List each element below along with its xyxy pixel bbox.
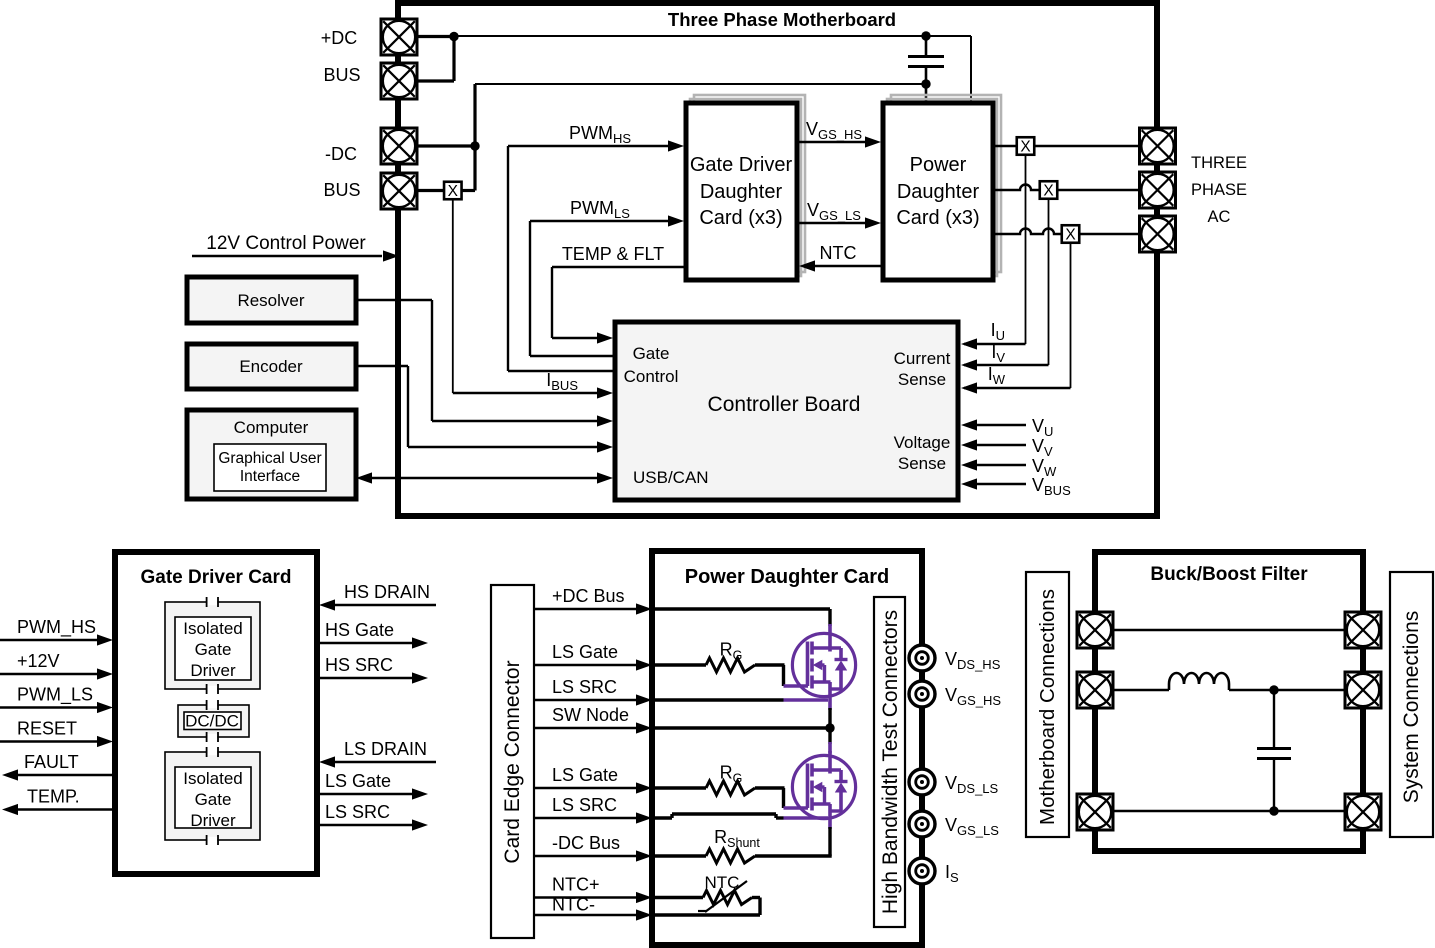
wire TEMP out: [16, 808, 113, 811]
wire SW Node from card edge connector: [534, 727, 638, 729]
svg-text:Control: Control: [624, 367, 679, 386]
terminal -DC BUS feedthrough 1: [381, 128, 417, 164]
label IS: [945, 862, 959, 885]
block Gate Driver Card: [115, 552, 317, 874]
svg-text:VDS_HS: VDS_HS: [945, 649, 1001, 672]
terminal phase V: [1140, 172, 1176, 208]
arrow VW into controller: [961, 459, 977, 470]
block High Bandwidth Test Connectors: [874, 597, 905, 927]
wire IV sense: [964, 199, 1049, 365]
label VW: [1032, 456, 1057, 479]
label VGS_LS: [945, 815, 999, 838]
block Resolver: [187, 277, 356, 323]
label SW Node pin: [552, 705, 629, 725]
svg-text:PHASE: PHASE: [1191, 181, 1247, 199]
svg-text:VGS_LS: VGS_LS: [807, 200, 861, 223]
label THREE PHASE AC: [1191, 154, 1247, 226]
arrow LS SRC into power card: [636, 812, 652, 823]
svg-text:High Bandwidth Test Connectors: High Bandwidth Test Connectors: [879, 610, 902, 914]
wire TEMP & FLT: [552, 267, 686, 338]
wire IBUS sense to controller: [453, 199, 598, 393]
arrow LS Gate out: [412, 788, 428, 799]
block Buck/Boost Filter: [1095, 552, 1363, 851]
arrow IBUS into controller: [597, 387, 613, 398]
wire +DC bus rail: [454, 36, 971, 101]
label RG low side: [720, 763, 743, 786]
svg-text:USB/CAN: USB/CAN: [633, 468, 709, 487]
terminal filter in mid: [1077, 672, 1113, 708]
terminal filter out bottom: [1345, 794, 1381, 830]
wire HS DRAIN: [332, 604, 436, 607]
label VGS_HS: [945, 685, 1001, 708]
label Gate Control: [624, 344, 679, 386]
svg-text:TEMP & FLT: TEMP & FLT: [562, 244, 664, 264]
svg-text:Motherboard Connections: Motherboard Connections: [1036, 589, 1059, 825]
wire source lead Q2: [828, 804, 832, 856]
wire USB/CAN computer link: [370, 477, 600, 479]
svg-text:Card (x3): Card (x3): [699, 207, 782, 229]
svg-text:AC: AC: [1208, 208, 1231, 226]
arrow VV into controller: [961, 439, 977, 450]
shadow Gate Driver Daughter Card: [690, 95, 805, 276]
wire LS Gate out: [319, 793, 412, 796]
isolation barrier marks LS: [207, 747, 218, 845]
arrow NTC- into power card: [636, 909, 652, 920]
test connector IS: [909, 858, 935, 884]
label IW: [988, 364, 1006, 387]
svg-text:LS SRC: LS SRC: [325, 802, 390, 822]
wire NTC- from card edge connector: [534, 914, 638, 916]
arrow 12V into motherboard: [383, 250, 399, 261]
terminal filter out top: [1345, 612, 1381, 648]
block DC/DC inner: [184, 712, 241, 731]
svg-text:IW: IW: [988, 364, 1006, 387]
arrow SW Node into power card: [636, 722, 652, 733]
wire LS SRC from card edge connector: [534, 817, 638, 819]
wire +DC Bus from card edge connector: [534, 608, 638, 610]
wire -DC Bus from card edge connector: [534, 855, 638, 857]
wire -DC terminal 4 to sensor: [417, 189, 444, 192]
wire VGS_LS: [797, 222, 868, 224]
wire drain lead Q2 (purple): [828, 751, 832, 774]
svg-text:-DC: -DC: [325, 144, 357, 164]
wire phase W: [993, 229, 1139, 235]
svg-text:X: X: [1065, 227, 1076, 244]
isolation barrier marks HS: [207, 597, 218, 694]
title Three Phase Motherboard: [668, 9, 896, 30]
node SW junction: [825, 723, 834, 732]
thermistor NTC: [655, 881, 760, 912]
wire 12V control power: [192, 255, 382, 258]
terminal +DC BUS feedthrough 2: [381, 63, 417, 99]
arrow VGS_LS into power card: [865, 217, 881, 228]
wire Encoder to controller: [356, 366, 598, 447]
label VU: [1032, 416, 1053, 439]
block System Connections: [1390, 572, 1433, 837]
label +DC BUS: [321, 28, 361, 85]
test connector VGS_LS: [909, 811, 935, 837]
current sensor X phase W: [1062, 225, 1080, 243]
wire +DC terminal 1 to junction: [417, 35, 454, 38]
svg-text:Sense: Sense: [898, 454, 946, 473]
label HS Gate: [325, 620, 394, 640]
title Gate Driver Card: [140, 567, 291, 588]
label USB/CAN: [633, 468, 709, 487]
wire HS SRC: [319, 677, 412, 680]
wire filter top rail: [1113, 629, 1345, 631]
svg-text:Card Edge Connector: Card Edge Connector: [501, 660, 524, 863]
label VDS_HS: [945, 649, 1001, 672]
label +12V: [17, 651, 60, 671]
svg-text:X: X: [1043, 183, 1054, 200]
svg-text:Three Phase Motherboard: Three Phase Motherboard: [668, 9, 896, 30]
test connector VDS_LS: [909, 769, 935, 795]
svg-text:HS DRAIN: HS DRAIN: [344, 582, 430, 602]
svg-text:Card (x3): Card (x3): [896, 207, 979, 229]
arrow IW into controller: [961, 382, 977, 393]
terminal phase U: [1140, 128, 1176, 164]
title Buck/Boost Filter: [1150, 564, 1308, 585]
label IU: [991, 320, 1005, 343]
block Power Daughter Card detail: [652, 551, 922, 945]
wire +DC bus internal: [655, 609, 830, 626]
svg-text:-DC Bus: -DC Bus: [552, 833, 620, 853]
arrow LS SRC into power card: [636, 694, 652, 705]
svg-text:PWMLS: PWMLS: [570, 198, 630, 221]
svg-text:BUS: BUS: [323, 65, 360, 85]
label VGS_LS: [807, 200, 861, 223]
terminal +DC BUS feedthrough 1: [381, 19, 417, 55]
block isolated gate driver HS outer: [165, 602, 260, 689]
wire -DC junction down to sensor: [462, 146, 475, 191]
svg-text:X: X: [1020, 139, 1031, 156]
svg-text:NTC: NTC: [820, 243, 857, 263]
svg-text:NTC+: NTC+: [552, 875, 600, 895]
label +DC Bus pin: [552, 586, 625, 606]
svg-text:VGS_HS: VGS_HS: [806, 119, 862, 142]
arrow PWM_LS: [97, 702, 113, 713]
wire -DC bus rail: [475, 84, 926, 146]
svg-text:IBUS: IBUS: [546, 370, 578, 393]
svg-text:LS Gate: LS Gate: [552, 642, 618, 662]
block Encoder: [187, 344, 356, 389]
arrow Resolver into controller: [597, 415, 613, 426]
svg-text:+12V: +12V: [17, 651, 60, 671]
wire PWM_LS into gate driver card: [0, 706, 100, 709]
isolation barrier marks DC/DC: [207, 700, 218, 742]
label FAULT: [24, 752, 79, 772]
svg-text:Gate: Gate: [633, 344, 670, 363]
block Controller Board: [615, 322, 958, 500]
arrow VU into controller: [961, 419, 977, 430]
svg-text:VDS_LS: VDS_LS: [945, 773, 999, 796]
svg-text:Voltage: Voltage: [894, 433, 951, 452]
label LS Gate pin: [552, 765, 618, 785]
label RG high side: [720, 640, 743, 663]
terminal filter out mid: [1345, 672, 1381, 708]
arrow HS DRAIN: [319, 599, 335, 610]
current sensor X phase V: [1040, 181, 1058, 199]
label HS SRC: [325, 655, 393, 675]
capacitor filter: [1257, 690, 1291, 811]
wire gate lead Q2: [784, 788, 809, 808]
svg-text:Daughter: Daughter: [700, 181, 783, 203]
label LS DRAIN: [344, 739, 427, 759]
wire +DC terminal 2 riser: [417, 37, 454, 82]
wire VGS_HS: [797, 141, 868, 143]
label Controller Board: [708, 393, 861, 416]
svg-text:Encoder: Encoder: [239, 357, 303, 376]
label PWM_HS: [569, 123, 631, 146]
label VDS_LS: [945, 773, 999, 796]
svg-text:PWM_LS: PWM_LS: [17, 685, 93, 706]
svg-text:Power Daughter Card: Power Daughter Card: [685, 566, 889, 588]
terminal filter in bottom: [1077, 794, 1113, 830]
block isolated gate driver HS inner: [175, 617, 251, 680]
label HS DRAIN: [344, 582, 430, 602]
label Current Sense: [894, 349, 951, 389]
svg-text:LS Gate: LS Gate: [552, 765, 618, 785]
arrow Encoder into controller: [597, 441, 613, 452]
wire cap to Power Daughter Card top: [925, 84, 928, 101]
node filter cap top: [1269, 685, 1278, 694]
arrow PWM_LS into gate driver card: [668, 215, 684, 226]
arrow PWM_HS into gate driver card: [668, 140, 684, 151]
svg-text:BUS: BUS: [323, 180, 360, 200]
svg-text:Driver: Driver: [190, 661, 236, 680]
svg-text:Current: Current: [894, 349, 951, 368]
arrow +DC Bus into power card: [636, 603, 652, 614]
wire drain lead Q1 (purple): [828, 624, 832, 652]
arrow FAULT: [2, 769, 18, 780]
svg-text:Power: Power: [910, 154, 967, 176]
svg-text:+DC: +DC: [321, 28, 358, 48]
svg-text:DC/DC: DC/DC: [185, 712, 239, 731]
arrow IU into controller: [961, 338, 977, 349]
wire LS SRC out: [319, 824, 412, 827]
wire HS Gate: [319, 642, 412, 645]
svg-text:Resolver: Resolver: [237, 291, 304, 310]
label -DC BUS: [323, 144, 360, 200]
svg-text:TEMP.: TEMP.: [27, 787, 80, 807]
svg-text:HS SRC: HS SRC: [325, 655, 393, 675]
title Power Daughter Card: [685, 566, 889, 588]
svg-text:Gate Driver: Gate Driver: [690, 154, 793, 176]
svg-text:Buck/Boost Filter: Buck/Boost Filter: [1150, 564, 1308, 585]
arrow VBUS into controller: [961, 478, 977, 489]
wire VW sense: [974, 464, 1026, 466]
arrow RESET: [97, 736, 113, 747]
test connector VDS_HS: [909, 645, 935, 671]
inductor L filter: [1169, 673, 1229, 690]
wire phase U: [993, 145, 1139, 147]
block Card Edge Connector: [491, 585, 534, 938]
label PWM_HS: [17, 617, 96, 638]
node -DC rail cap tap: [921, 79, 930, 88]
svg-text:LS SRC: LS SRC: [552, 677, 617, 697]
block Power Daughter Card x3: [883, 103, 993, 280]
svg-text:HS Gate: HS Gate: [325, 620, 394, 640]
resistor RG high side: [655, 658, 785, 672]
node -DC junction: [470, 141, 479, 150]
test connector VGS_HS: [909, 681, 935, 707]
terminal filter in top: [1077, 612, 1113, 648]
wire FAULT out: [16, 774, 113, 777]
wire LS Gate from card edge connector: [534, 664, 638, 666]
block isolated gate driver LS outer: [165, 752, 260, 840]
wire +12V into gate driver card: [0, 673, 100, 676]
arrow HS SRC: [412, 672, 428, 683]
wire PWM_HS into gate driver card: [0, 639, 100, 642]
label RShunt: [714, 827, 760, 850]
wire VBUS sense: [974, 483, 1026, 485]
svg-text:Isolated: Isolated: [183, 769, 243, 788]
label LS Gate out: [325, 771, 391, 791]
wire SW to Q2 drain: [828, 728, 831, 754]
wire filter bottom rail: [1113, 810, 1345, 812]
node +DC junction: [449, 32, 458, 41]
svg-text:VGS_LS: VGS_LS: [945, 815, 999, 838]
wire IU sense: [964, 155, 1026, 344]
label LS SRC pin: [552, 795, 617, 815]
label VV: [1032, 436, 1053, 459]
svg-text:Driver: Driver: [190, 811, 236, 830]
label NTC: [820, 243, 857, 263]
svg-text:Daughter: Daughter: [897, 181, 980, 203]
label NTC+ pin: [552, 875, 600, 895]
label IV: [991, 342, 1005, 365]
svg-text:Graphical User: Graphical User: [218, 450, 321, 467]
svg-text:NTC-: NTC-: [552, 895, 595, 915]
wire NTC feedback: [812, 265, 883, 267]
label TEMP & FLT: [562, 244, 664, 264]
wire LS SRC kelvin Q1: [655, 698, 828, 701]
svg-text:+DC Bus: +DC Bus: [552, 586, 625, 606]
block isolated gate driver LS inner: [175, 767, 251, 830]
node +DC rail cap tap: [921, 31, 930, 40]
label NTC- pin: [552, 895, 595, 915]
svg-text:VGS_HS: VGS_HS: [945, 685, 1001, 708]
arrow VGS_HS into power card: [865, 136, 881, 147]
block Motherboard Connections: [1026, 572, 1069, 837]
label -DC Bus pin: [552, 833, 620, 853]
arrow NTC into gate driver card: [799, 260, 815, 271]
wire phase V: [993, 185, 1139, 191]
transistor Q1 high-side MOSFET: [792, 633, 855, 696]
wire VU sense: [974, 424, 1026, 426]
label LS SRC out: [325, 802, 390, 822]
svg-text:SW Node: SW Node: [552, 705, 629, 725]
block Computer: [187, 410, 356, 499]
svg-text:Computer: Computer: [234, 418, 309, 437]
wire LS SRC from card edge connector: [534, 699, 638, 701]
svg-text:Controller Board: Controller Board: [708, 393, 861, 416]
wire filter mid rail: [1113, 689, 1345, 691]
capacitor DC link: [908, 36, 944, 84]
svg-text:Sense: Sense: [898, 370, 946, 389]
label VBUS: [1032, 475, 1071, 498]
arrow LS DRAIN: [319, 756, 335, 767]
svg-text:X: X: [448, 183, 459, 200]
svg-text:Interface: Interface: [240, 468, 300, 485]
resistor RG low side: [655, 781, 785, 795]
arrow LS Gate into power card: [636, 782, 652, 793]
svg-text:Gate Driver Card: Gate Driver Card: [140, 567, 291, 588]
wire NTC+ from card edge connector: [534, 896, 638, 898]
svg-text:Gate: Gate: [195, 790, 232, 809]
svg-text:12V Control Power: 12V Control Power: [206, 233, 366, 254]
label PWM_LS: [570, 198, 630, 221]
label RESET: [17, 719, 77, 739]
svg-text:IS: IS: [945, 862, 959, 885]
current sensor X phase U: [1017, 137, 1035, 155]
svg-text:PWMHS: PWMHS: [569, 123, 631, 146]
svg-text:LS SRC: LS SRC: [552, 795, 617, 815]
arrow LS SRC out: [412, 819, 428, 830]
wire PWM_LS: [530, 221, 670, 356]
terminal -DC BUS feedthrough 2: [381, 173, 417, 209]
terminal phase W: [1140, 216, 1176, 252]
arrow -DC Bus into power card: [636, 850, 652, 861]
label IBUS: [546, 370, 578, 393]
label PWM_LS: [17, 685, 93, 706]
wire LS Gate from card edge connector: [534, 787, 638, 789]
wire LS SRC kelvin Q2: [655, 814, 828, 818]
arrow HS Gate: [412, 637, 428, 648]
wire gate lead Q1: [784, 665, 809, 686]
arrow TEMP & FLT into controller: [597, 332, 613, 343]
svg-text:FAULT: FAULT: [24, 752, 79, 772]
block Gate Driver Daughter Card: [686, 103, 797, 280]
wire Resolver to controller: [356, 300, 598, 421]
svg-text:LS Gate: LS Gate: [325, 771, 391, 791]
svg-text:IV: IV: [991, 342, 1005, 365]
svg-text:Gate: Gate: [195, 640, 232, 659]
wire PWM_HS: [508, 146, 670, 371]
label VGS_HS: [806, 119, 862, 142]
label TEMP.: [27, 787, 80, 807]
node filter cap bottom: [1269, 806, 1278, 815]
wire IW sense: [964, 243, 1071, 388]
arrow TEMP: [2, 804, 18, 815]
label 12V Control Power: [206, 233, 366, 254]
svg-text:NTC: NTC: [705, 873, 740, 892]
transistor Q2 low-side MOSFET: [792, 755, 855, 818]
wire LS DRAIN: [332, 761, 436, 764]
arrow USB/CAN to controller: [597, 472, 613, 483]
svg-text:LS DRAIN: LS DRAIN: [344, 739, 427, 759]
current sensor X (IBUS): [444, 182, 462, 200]
svg-text:Isolated: Isolated: [183, 619, 243, 638]
wire source lead Q1: [828, 682, 832, 728]
svg-text:THREE: THREE: [1191, 154, 1247, 172]
label Voltage Sense: [894, 433, 951, 473]
svg-text:System Connections: System Connections: [1400, 611, 1423, 804]
motherboard outline (Three Phase Motherboard): [398, 3, 1157, 516]
svg-text:IU: IU: [991, 320, 1005, 343]
wire -DC terminal 3 to junction: [417, 144, 475, 147]
wire NTC return: [655, 898, 760, 916]
arrow +12V: [97, 668, 113, 679]
svg-text:RESET: RESET: [17, 719, 77, 739]
shadow Power Daughter Card: [887, 95, 1001, 276]
label LS Gate pin: [552, 642, 618, 662]
wire VV sense: [974, 444, 1026, 446]
arrow LS Gate into power card: [636, 659, 652, 670]
arrow USB/CAN to computer: [356, 472, 372, 483]
wire SW node: [655, 726, 830, 729]
block Graphical User Interface: [214, 444, 326, 491]
